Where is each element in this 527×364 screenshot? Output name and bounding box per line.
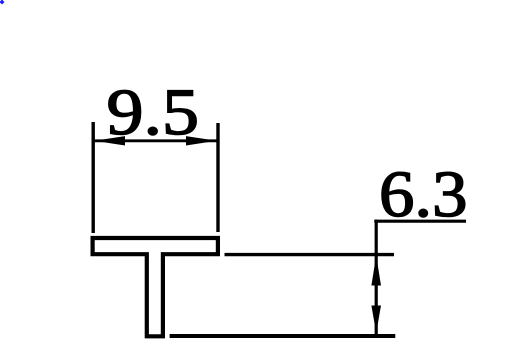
arrowhead up xyxy=(371,256,381,286)
T profile outline xyxy=(93,238,218,336)
plot origin mark (blue) xyxy=(0,0,5,5)
arrowhead down xyxy=(371,306,381,334)
arrowhead left xyxy=(94,136,125,145)
extension line right of 9.5 xyxy=(216,123,219,232)
extension line left of 9.5 xyxy=(91,122,94,233)
leader line 6.3 xyxy=(374,220,466,223)
object line top right xyxy=(225,253,395,256)
dimension line 9.5 xyxy=(95,139,217,142)
object line bottom right xyxy=(170,334,396,338)
arrowhead right xyxy=(186,136,217,145)
vertical dimension line 6.3 xyxy=(375,220,378,336)
